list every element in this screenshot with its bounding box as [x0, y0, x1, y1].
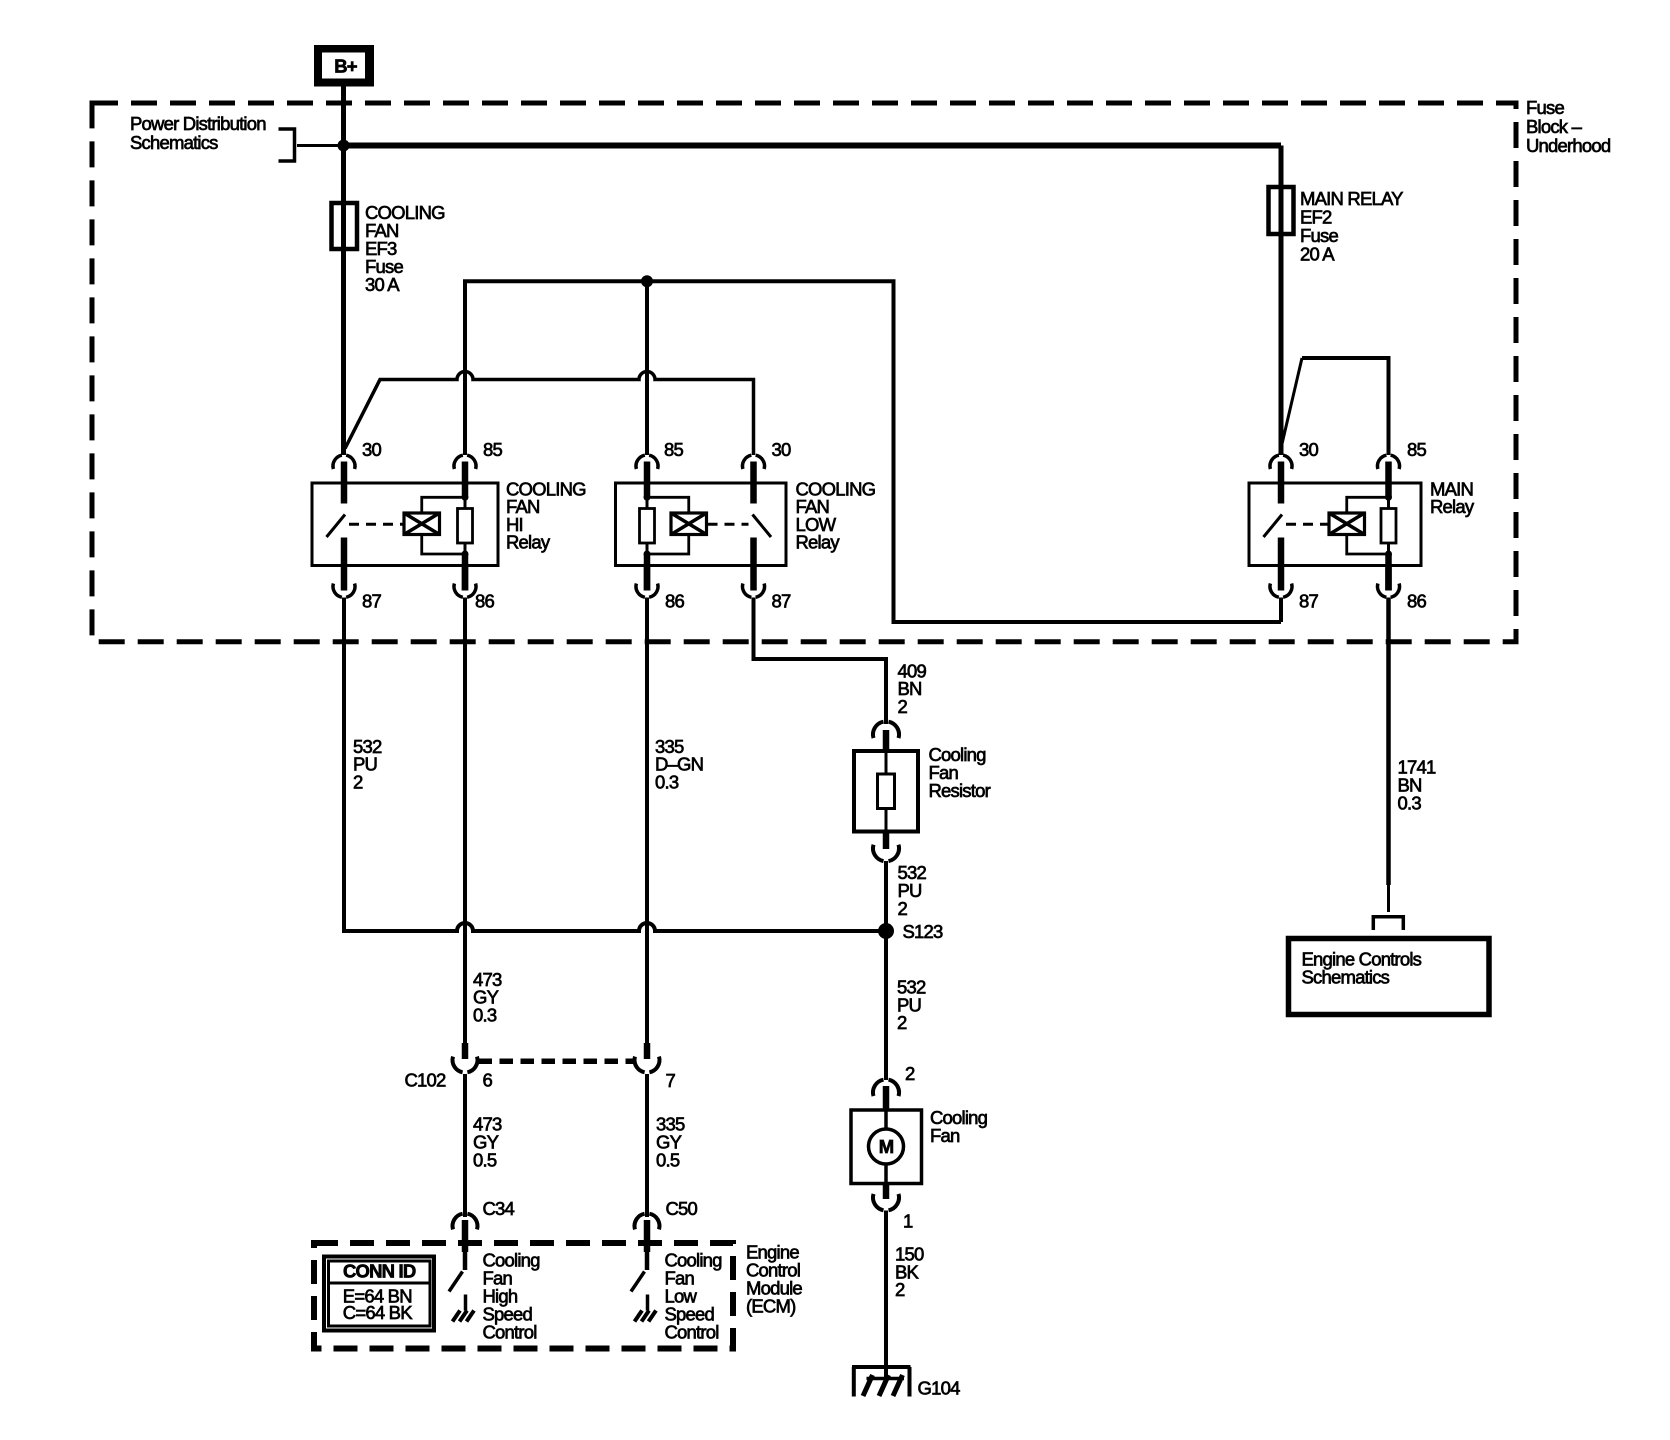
svg-text:C=64 BK: C=64 BK [343, 1302, 413, 1323]
svg-text:2: 2 [895, 1279, 905, 1300]
svg-text:0.3: 0.3 [1398, 793, 1422, 814]
svg-text:Power Distribution: Power Distribution [130, 113, 266, 134]
svg-text:Underhood: Underhood [1526, 135, 1611, 156]
svg-text:0.5: 0.5 [473, 1149, 497, 1170]
svg-text:S123: S123 [903, 921, 944, 942]
svg-text:87: 87 [772, 591, 791, 612]
svg-text:85: 85 [664, 439, 683, 460]
svg-text:G104: G104 [918, 1378, 961, 1399]
svg-text:30: 30 [362, 439, 381, 460]
svg-text:Relay: Relay [1430, 496, 1475, 517]
svg-text:0.3: 0.3 [655, 771, 679, 792]
svg-text:0.3: 0.3 [473, 1004, 497, 1025]
svg-text:2: 2 [897, 1012, 907, 1033]
svg-text:2: 2 [898, 696, 908, 717]
svg-text:85: 85 [1407, 439, 1426, 460]
svg-text:85: 85 [483, 439, 502, 460]
svg-text:2: 2 [898, 898, 908, 919]
svg-text:86: 86 [475, 591, 494, 612]
svg-text:Control: Control [483, 1322, 537, 1343]
svg-text:30 A: 30 A [365, 274, 400, 295]
svg-text:M: M [879, 1136, 894, 1157]
svg-text:Control: Control [665, 1322, 719, 1343]
svg-text:20 A: 20 A [1300, 244, 1335, 265]
svg-text:87: 87 [1299, 591, 1318, 612]
svg-text:86: 86 [665, 591, 684, 612]
svg-text:30: 30 [1299, 439, 1318, 460]
svg-text:Relay: Relay [506, 532, 551, 553]
svg-text:Resistor: Resistor [929, 780, 991, 801]
svg-text:Block –: Block – [1526, 116, 1583, 137]
svg-text:Fan: Fan [930, 1125, 960, 1146]
svg-text:87: 87 [362, 591, 381, 612]
svg-text:C50: C50 [666, 1198, 698, 1219]
svg-text:86: 86 [1407, 591, 1426, 612]
svg-text:C34: C34 [483, 1198, 515, 1219]
svg-text:7: 7 [666, 1070, 676, 1091]
svg-text:Relay: Relay [796, 532, 841, 553]
svg-text:0.5: 0.5 [656, 1149, 680, 1170]
svg-text:(ECM): (ECM) [746, 1296, 796, 1317]
svg-text:1: 1 [903, 1211, 913, 1232]
svg-text:B+: B+ [334, 56, 358, 77]
svg-text:Schematics: Schematics [1302, 967, 1390, 988]
svg-text:2: 2 [353, 771, 363, 792]
svg-text:CONN ID: CONN ID [343, 1261, 416, 1282]
svg-text:6: 6 [483, 1070, 493, 1091]
svg-text:2: 2 [905, 1063, 915, 1084]
svg-text:Fuse: Fuse [1526, 97, 1564, 118]
svg-text:C102: C102 [405, 1070, 447, 1091]
svg-text:30: 30 [772, 439, 791, 460]
svg-text:Schematics: Schematics [130, 132, 218, 153]
